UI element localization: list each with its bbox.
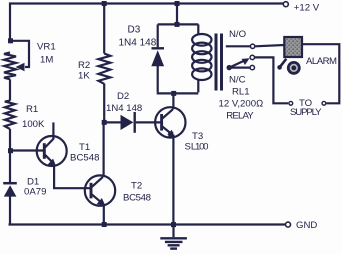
svg-text:R1: R1 [26, 104, 38, 115]
svg-text:12 V,200Ω: 12 V,200Ω [219, 98, 264, 109]
svg-text:0A79: 0A79 [24, 186, 46, 197]
svg-text:VR1: VR1 [37, 42, 56, 53]
svg-text:R2: R2 [78, 60, 90, 71]
svg-text:1M: 1M [40, 55, 53, 66]
svg-text:+12 V: +12 V [294, 3, 320, 14]
svg-text:1K: 1K [78, 71, 90, 82]
svg-text:BC548: BC548 [70, 153, 100, 164]
svg-text:T3: T3 [192, 131, 203, 142]
svg-text:100K: 100K [22, 119, 45, 130]
svg-text:D3: D3 [128, 25, 141, 36]
svg-text:ALARM: ALARM [306, 56, 337, 67]
svg-text:RELAY: RELAY [226, 111, 254, 122]
svg-text:RL1: RL1 [232, 87, 250, 98]
svg-text:D2: D2 [117, 91, 129, 102]
svg-text:T2: T2 [131, 180, 142, 191]
svg-text:SUPPLY: SUPPLY [290, 107, 322, 118]
svg-text:1N4 148: 1N4 148 [106, 103, 142, 114]
svg-text:100: 100 [195, 142, 209, 153]
svg-text:N/C: N/C [229, 74, 246, 85]
svg-text:1N4 148: 1N4 148 [119, 37, 157, 48]
svg-text:N/O: N/O [229, 29, 246, 40]
svg-text:GND: GND [296, 220, 317, 231]
svg-text:BC548: BC548 [123, 192, 151, 203]
